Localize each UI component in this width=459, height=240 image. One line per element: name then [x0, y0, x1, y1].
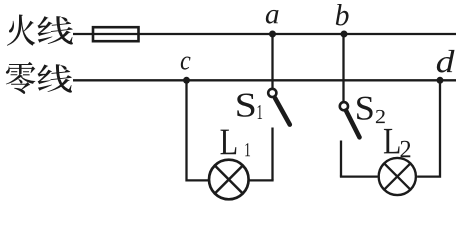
- lamp L1: [209, 130, 250, 200]
- switch S1: [237, 89, 290, 125]
- wire S1 to L1 horizontal: [249, 179, 274, 181]
- node c: [181, 56, 191, 83]
- switch S2: [340, 97, 385, 138]
- wire a to S1 vertical: [271, 34, 273, 88]
- wire live (火线) horizontal: [73, 33, 456, 35]
- node b: [336, 4, 349, 38]
- wire L2 to d horizontal+vertical: [417, 80, 440, 176]
- label 火线 (live wire): [7, 15, 73, 46]
- wire L1 to c vertical+horizontal: [187, 80, 210, 180]
- fuse (保险丝) on live wire: [93, 27, 139, 41]
- lamp L2: [379, 129, 416, 195]
- label 零线 (neutral wire): [6, 62, 72, 94]
- wire b to S2 vertical: [342, 34, 344, 101]
- wire S2 to L2 horizontal: [340, 175, 378, 177]
- node a: [266, 10, 279, 38]
- node d: [437, 50, 455, 84]
- wire S2 fixed contact vertical: [340, 141, 342, 177]
- wire neutral (零线) horizontal: [73, 79, 456, 81]
- wire S1 fixed contact vertical: [271, 128, 273, 181]
